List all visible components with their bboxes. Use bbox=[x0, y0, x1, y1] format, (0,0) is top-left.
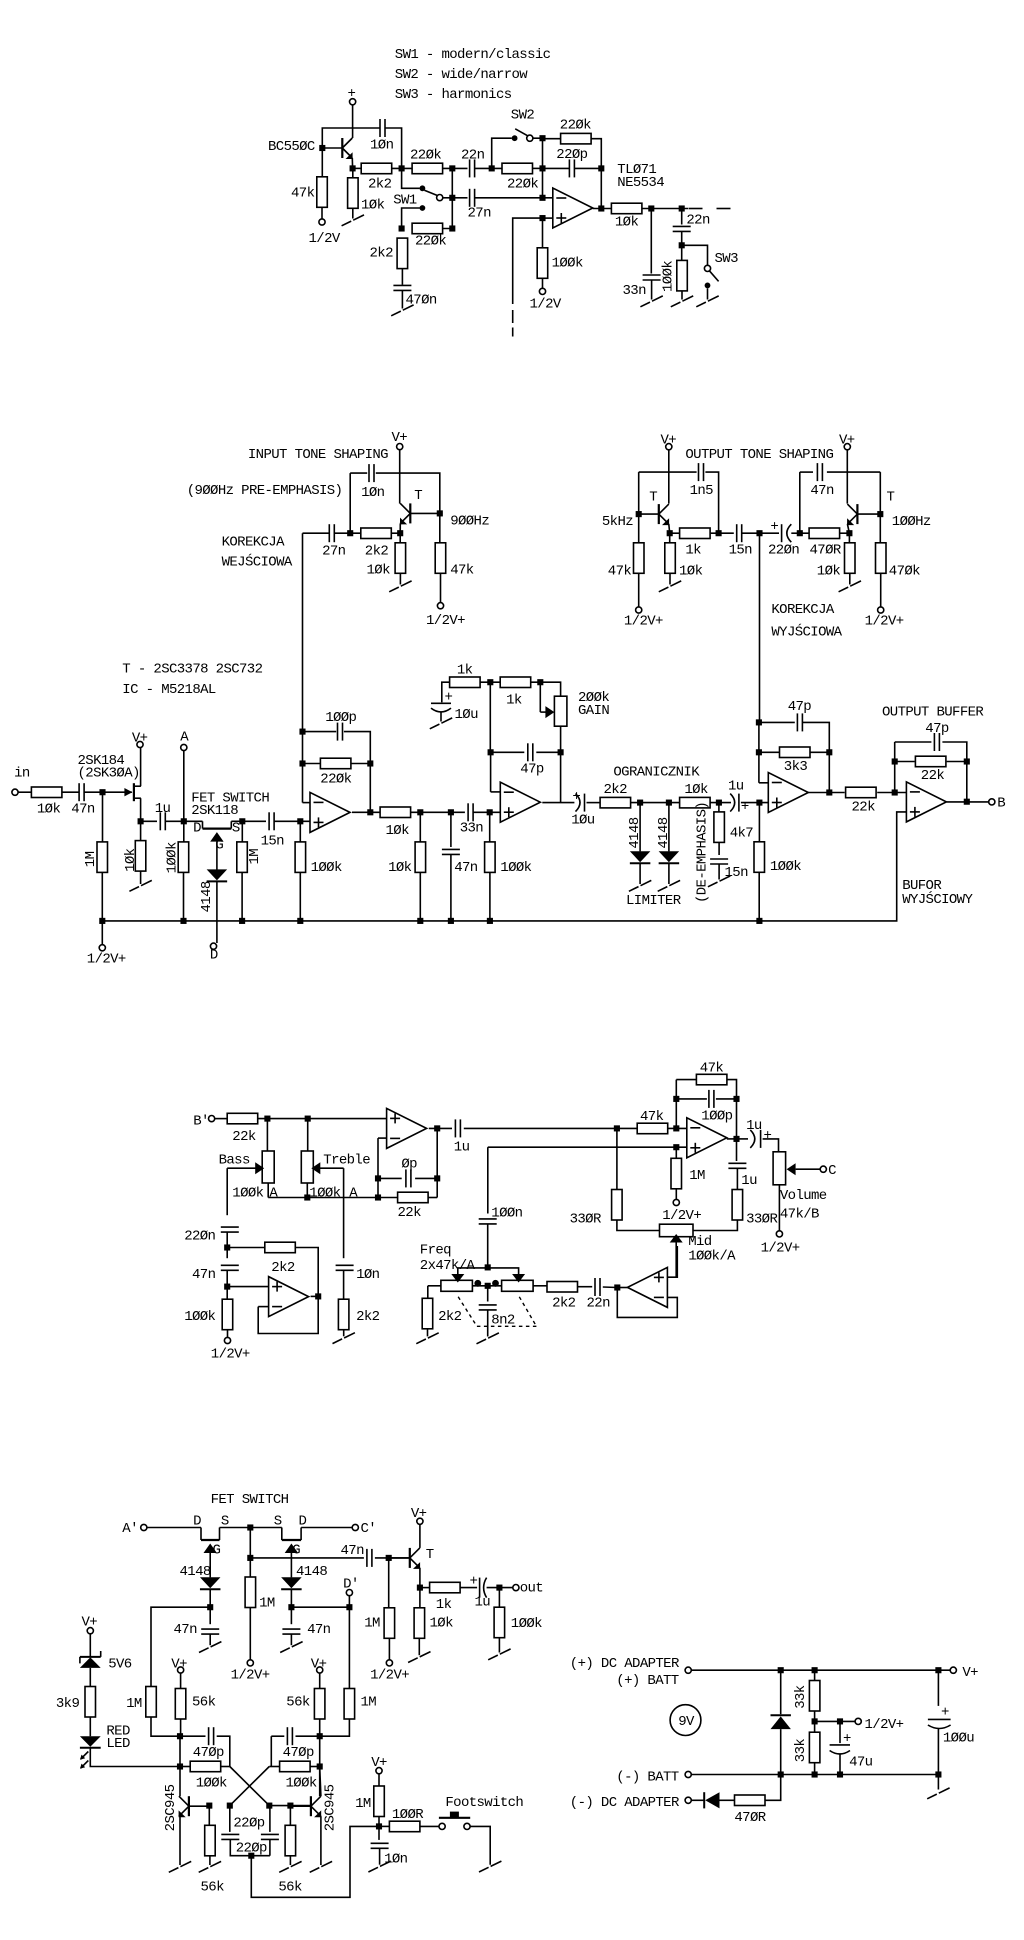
svg-text:1Øk: 1Øk bbox=[679, 564, 703, 580]
capacitor 22n C37 bbox=[595, 1278, 600, 1296]
svg-text:2k2: 2k2 bbox=[438, 1309, 462, 1325]
resistor 220k R7 bbox=[412, 223, 443, 234]
wire bbox=[942, 742, 966, 762]
wire bbox=[937, 1670, 939, 1706]
wire bbox=[216, 882, 218, 943]
wire bbox=[617, 1127, 637, 1129]
node bbox=[288, 1604, 294, 1610]
svg-text:1ØØk: 1ØØk bbox=[500, 860, 531, 876]
node bbox=[181, 818, 187, 824]
wire bbox=[209, 1856, 211, 1865]
wire bbox=[419, 1588, 421, 1608]
svg-text:56k: 56k bbox=[201, 1880, 225, 1896]
capacitor 8n2 C36 bbox=[479, 1305, 497, 1310]
wire bbox=[727, 1080, 737, 1139]
node bbox=[636, 511, 642, 517]
terminal 1/2V+ bbox=[386, 1660, 392, 1666]
node bbox=[826, 789, 832, 795]
svg-text:4148: 4148 bbox=[199, 881, 215, 912]
wire bbox=[295, 1248, 318, 1297]
svg-text:T: T bbox=[426, 1547, 434, 1563]
wire bbox=[209, 1590, 211, 1608]
node bbox=[756, 719, 762, 725]
capacitor 0p C30 bbox=[406, 1169, 411, 1187]
wire bbox=[450, 854, 452, 921]
capacitor 27n C9 bbox=[329, 524, 334, 542]
op-amp U2b M5218AL bbox=[500, 782, 540, 822]
svg-text:56k: 56k bbox=[278, 1880, 302, 1896]
node bbox=[376, 1823, 382, 1829]
resistor 56k R58 bbox=[175, 1689, 186, 1720]
potentiometer Volume 47k/B bbox=[773, 1152, 786, 1185]
ground bbox=[659, 587, 669, 592]
resistor 100k R70 bbox=[494, 1607, 505, 1638]
wire bbox=[487, 1224, 489, 1267]
capacitor 22n C2 bbox=[470, 159, 475, 177]
svg-text:15n: 15n bbox=[261, 834, 285, 850]
ground bbox=[839, 587, 849, 592]
wire bbox=[827, 471, 880, 473]
wire bbox=[352, 811, 380, 813]
svg-text:1/2V+: 1/2V+ bbox=[211, 1347, 250, 1363]
capacitor 15n C16 bbox=[269, 812, 274, 830]
power V+ terminal bbox=[376, 1768, 382, 1774]
node bbox=[812, 1771, 818, 1777]
node bbox=[177, 1763, 183, 1769]
node bbox=[797, 530, 803, 536]
resistor 1k R54 bbox=[430, 1582, 461, 1593]
svg-text:47ØR: 47ØR bbox=[734, 1810, 766, 1826]
resistor 10k R28 bbox=[380, 807, 411, 818]
wire bbox=[711, 532, 734, 534]
wire bbox=[141, 820, 157, 822]
svg-text:G: G bbox=[292, 1543, 300, 1559]
wire bbox=[846, 450, 848, 504]
node bbox=[487, 918, 493, 924]
wire bbox=[411, 811, 465, 813]
svg-text:T: T bbox=[414, 488, 422, 504]
svg-text:47Øk: 47Øk bbox=[889, 564, 920, 580]
node bbox=[247, 1555, 253, 1561]
wire bbox=[183, 751, 185, 822]
node bbox=[319, 145, 325, 151]
wire bbox=[543, 138, 561, 140]
svg-text:(+) DC ADAPTER: (+) DC ADAPTER bbox=[570, 1656, 680, 1672]
svg-text:33n: 33n bbox=[460, 821, 484, 837]
svg-text:Footswitch: Footswitch bbox=[445, 1795, 523, 1811]
capacitor 10u C21 bbox=[431, 702, 451, 714]
wire bbox=[401, 269, 403, 285]
svg-text:47k: 47k bbox=[700, 1060, 724, 1076]
capacitor 33n C19 bbox=[468, 803, 473, 821]
svg-text:+: + bbox=[941, 1705, 949, 1721]
wire bbox=[718, 864, 720, 880]
wire bbox=[736, 1168, 738, 1189]
wire bbox=[560, 726, 562, 802]
resistor 2k2 R42 bbox=[265, 1242, 296, 1253]
svg-text:1u: 1u bbox=[741, 1173, 757, 1189]
terminal B bbox=[989, 799, 995, 805]
wire bbox=[321, 207, 323, 219]
wire bbox=[691, 1774, 938, 1776]
svg-text:1/2V+: 1/2V+ bbox=[865, 1717, 904, 1733]
svg-text:2k2: 2k2 bbox=[271, 1260, 295, 1276]
capacitor 47n C40 bbox=[367, 1549, 372, 1567]
node bbox=[778, 1667, 784, 1673]
ground bbox=[640, 302, 650, 307]
resistor 100k R62 bbox=[280, 1761, 311, 1772]
wire bbox=[296, 1735, 320, 1737]
wire bbox=[802, 722, 829, 752]
terminal in bbox=[12, 789, 18, 795]
resistor 3k3 R37 bbox=[780, 747, 811, 758]
resistor 1M R53 bbox=[384, 1608, 395, 1639]
wire bbox=[458, 1268, 488, 1274]
svg-text:OGRANICZNIK: OGRANICZNIK bbox=[613, 764, 700, 780]
wire bbox=[668, 1127, 687, 1129]
wire bbox=[741, 802, 768, 804]
wire bbox=[301, 1527, 352, 1529]
wire bbox=[399, 533, 401, 543]
wire bbox=[183, 821, 185, 842]
capacitor 470n C3 bbox=[393, 285, 411, 290]
wire bbox=[879, 514, 881, 543]
wire bbox=[377, 1138, 379, 1197]
svg-text:1ØØk: 1ØØk bbox=[184, 1309, 215, 1325]
svg-text:8n2: 8n2 bbox=[491, 1313, 515, 1329]
terminal V+ bbox=[950, 1667, 956, 1673]
diode D3 4148 bbox=[659, 851, 680, 862]
node bbox=[539, 165, 545, 171]
ground bbox=[430, 724, 440, 729]
wire bbox=[848, 533, 850, 543]
node bbox=[935, 1771, 941, 1777]
wire bbox=[208, 1806, 210, 1826]
wire bbox=[839, 1755, 841, 1775]
wire bbox=[670, 532, 679, 534]
wire bbox=[420, 1587, 430, 1589]
node bbox=[206, 1803, 212, 1809]
svg-text:4148: 4148 bbox=[656, 817, 672, 848]
terminal 1/2V+ bbox=[776, 1231, 782, 1237]
wire bbox=[351, 158, 353, 168]
wire bbox=[895, 741, 932, 743]
resistor 100k R9 bbox=[537, 248, 548, 278]
node bbox=[399, 225, 405, 231]
node bbox=[812, 1667, 818, 1673]
svg-text:47n: 47n bbox=[307, 1622, 331, 1638]
svg-text:V+: V+ bbox=[171, 1656, 187, 1672]
wire bbox=[727, 1138, 737, 1140]
svg-text:47n: 47n bbox=[71, 802, 95, 818]
wire bbox=[460, 1587, 477, 1589]
node bbox=[733, 1096, 739, 1102]
svg-text:4148: 4148 bbox=[296, 1564, 327, 1580]
wire bbox=[180, 1673, 182, 1689]
svg-text:47k: 47k bbox=[291, 186, 315, 202]
resistor 10k R14 bbox=[395, 543, 406, 574]
diode D1 4148 bbox=[207, 869, 228, 880]
wire bbox=[464, 1127, 617, 1129]
node bbox=[297, 818, 303, 824]
node bbox=[375, 1194, 381, 1200]
wire bbox=[675, 1189, 677, 1200]
wire bbox=[227, 1247, 265, 1249]
wire bbox=[140, 798, 142, 821]
wire bbox=[814, 1711, 816, 1732]
svg-text:WEJŚCIOWA: WEJŚCIOWA bbox=[222, 553, 293, 571]
wire bbox=[344, 732, 370, 764]
wire bbox=[440, 573, 442, 602]
wire bbox=[814, 1763, 816, 1775]
ground bbox=[479, 1867, 489, 1872]
battery 9V bbox=[670, 1705, 701, 1736]
ground bbox=[629, 887, 639, 892]
svg-text:(-) BATT: (-) BATT bbox=[616, 1769, 678, 1785]
wire bbox=[62, 791, 79, 793]
svg-text:1Øk: 1Øk bbox=[684, 782, 708, 798]
diode D6 bbox=[771, 1716, 791, 1729]
capacitor 470p C45 bbox=[287, 1727, 292, 1745]
svg-text:2x47k/A: 2x47k/A bbox=[420, 1258, 476, 1274]
op-amp U5b M5218AL bbox=[627, 1267, 667, 1307]
wire bbox=[242, 820, 266, 822]
wire bbox=[765, 1775, 781, 1801]
svg-text:47p: 47p bbox=[925, 721, 949, 737]
svg-text:1ØØp: 1ØØp bbox=[325, 710, 356, 726]
svg-text:out: out bbox=[520, 1581, 543, 1597]
svg-text:2k2: 2k2 bbox=[370, 246, 394, 262]
wire bbox=[489, 872, 491, 921]
svg-text:SW1 - modern/classic: SW1 - modern/classic bbox=[395, 47, 551, 63]
node bbox=[180, 918, 186, 924]
svg-text:1M: 1M bbox=[247, 849, 263, 865]
resistor 100k R11 bbox=[677, 260, 688, 291]
wire cross-couple bbox=[230, 1767, 269, 1806]
wire bbox=[487, 1587, 513, 1589]
svg-text:FET SWITCH: FET SWITCH bbox=[211, 1492, 289, 1508]
wire bbox=[533, 167, 543, 169]
svg-text:C: C bbox=[828, 1163, 836, 1179]
gang dot bbox=[492, 1280, 499, 1287]
op-amp U4a M5218AL bbox=[269, 1277, 309, 1317]
capacitor 47u bbox=[831, 1743, 849, 1756]
wire bbox=[428, 1197, 437, 1199]
wire bbox=[587, 802, 601, 804]
wire bbox=[758, 803, 760, 842]
wire bbox=[847, 524, 849, 533]
resistor 100k R36 bbox=[754, 842, 765, 873]
wire bbox=[209, 1634, 211, 1645]
node bbox=[315, 1293, 321, 1299]
power V+ terminal bbox=[178, 1667, 184, 1673]
resistor 1k R31 bbox=[450, 677, 481, 688]
capacitor 47p C25 bbox=[797, 713, 802, 731]
node bbox=[347, 530, 353, 536]
capacitor 22n C7 bbox=[673, 226, 691, 231]
wire bbox=[385, 128, 402, 168]
wire bbox=[147, 1527, 201, 1529]
capacitor 10u C22 bbox=[578, 794, 586, 812]
resistor 1M R65 bbox=[374, 1786, 385, 1817]
svg-text:(-) DC ADAPTER: (-) DC ADAPTER bbox=[570, 1795, 680, 1811]
wire bbox=[291, 1606, 349, 1608]
wire bbox=[311, 1295, 319, 1297]
wire bbox=[489, 682, 491, 752]
terminal A' bbox=[141, 1524, 147, 1530]
transistor T3 100Hz bbox=[856, 504, 858, 524]
node bbox=[673, 1125, 679, 1131]
node bbox=[437, 510, 443, 516]
diode RED LED bbox=[80, 1736, 101, 1747]
svg-text:1ØØk: 1ØØk bbox=[311, 860, 342, 876]
capacitor 1u C23 bbox=[732, 794, 740, 812]
terminal 1/2V+ bbox=[99, 945, 105, 951]
wire bbox=[780, 1729, 782, 1774]
svg-text:15n: 15n bbox=[725, 865, 749, 881]
wire bbox=[343, 1168, 345, 1258]
resistor 22k R40 bbox=[227, 1113, 258, 1124]
capacitor 100n C33 bbox=[479, 1219, 497, 1224]
transistor Q6 T bbox=[409, 1548, 411, 1568]
svg-text:33ØR: 33ØR bbox=[746, 1211, 778, 1227]
svg-text:D: D bbox=[210, 947, 218, 963]
wire bbox=[290, 1590, 292, 1608]
wire bbox=[763, 1139, 779, 1152]
wire bbox=[879, 472, 881, 514]
wire bbox=[419, 1568, 421, 1588]
switch SW1 bbox=[420, 185, 426, 191]
svg-text:1Øn: 1Øn bbox=[370, 138, 394, 154]
node bbox=[648, 205, 654, 211]
resistor 10k R55 bbox=[414, 1608, 425, 1639]
wire bbox=[617, 1220, 659, 1231]
potentiometer 200k GAIN bbox=[554, 696, 567, 726]
svg-text:1Øk: 1Øk bbox=[361, 198, 385, 214]
terminal D bbox=[210, 943, 216, 949]
ground bbox=[416, 1339, 426, 1344]
svg-text:5kHz: 5kHz bbox=[602, 514, 633, 530]
node bbox=[892, 789, 898, 795]
op-amp U2a M5218AL bbox=[310, 792, 350, 832]
wire bbox=[353, 167, 362, 169]
node bbox=[837, 1771, 843, 1777]
wire bbox=[593, 208, 612, 210]
wire bbox=[230, 1839, 270, 1855]
svg-text:1/2V+: 1/2V+ bbox=[426, 613, 465, 629]
ground bbox=[279, 1868, 289, 1873]
wire bbox=[759, 721, 795, 723]
transistor Q4 FET bbox=[201, 1539, 220, 1541]
wire bbox=[220, 1766, 229, 1768]
svg-text:1M: 1M bbox=[355, 1796, 371, 1812]
switch SW2 bbox=[512, 135, 518, 141]
node bbox=[138, 818, 144, 824]
svg-text:1ØØk: 1ØØk bbox=[661, 261, 677, 292]
wire bbox=[758, 722, 760, 782]
wire bbox=[810, 751, 829, 753]
node bbox=[266, 1803, 272, 1809]
svg-text:S: S bbox=[274, 1514, 282, 1530]
svg-text:22k: 22k bbox=[852, 800, 876, 816]
wire bbox=[705, 472, 718, 533]
wire bbox=[681, 209, 683, 225]
terminal (+) bbox=[685, 1667, 691, 1673]
wire bbox=[498, 1588, 500, 1608]
svg-text:+: + bbox=[470, 1574, 478, 1590]
node bbox=[434, 1175, 440, 1181]
node bbox=[449, 225, 455, 231]
resistor 4k7 R35 bbox=[714, 812, 725, 843]
capacitor 1u C31 bbox=[455, 1119, 460, 1137]
svg-text:1/2V+: 1/2V+ bbox=[624, 613, 663, 629]
svg-text:27n: 27n bbox=[468, 206, 492, 222]
svg-text:1/2V+: 1/2V+ bbox=[231, 1668, 270, 1684]
svg-text:B: B bbox=[997, 795, 1005, 811]
wire bbox=[639, 471, 697, 473]
svg-text:1Øk: 1Øk bbox=[817, 564, 841, 580]
resistor 1M R64 bbox=[344, 1689, 355, 1720]
wire bbox=[90, 1748, 180, 1767]
svg-text:1M: 1M bbox=[83, 851, 99, 867]
op-amp U5a M5218AL bbox=[687, 1118, 727, 1158]
svg-text:1ØØR: 1ØØR bbox=[392, 1807, 424, 1823]
wire bbox=[215, 1118, 228, 1120]
wire bbox=[350, 472, 367, 474]
svg-text:1k: 1k bbox=[436, 1597, 452, 1613]
svg-text:KOREKCJA: KOREKCJA bbox=[771, 602, 834, 618]
svg-text:A: A bbox=[180, 730, 189, 746]
resistor 220k R8 bbox=[561, 133, 592, 144]
wire bbox=[89, 1668, 91, 1687]
node bbox=[448, 809, 454, 815]
resistor 47k R12 bbox=[435, 543, 446, 574]
wire bbox=[151, 1717, 180, 1736]
wire bbox=[419, 872, 421, 921]
wire bbox=[420, 1825, 439, 1827]
node bbox=[397, 530, 403, 536]
power V+ terminal bbox=[317, 1667, 323, 1673]
wire bbox=[303, 802, 311, 804]
wire bbox=[880, 573, 882, 607]
ground bbox=[658, 887, 668, 892]
ground bbox=[696, 302, 706, 307]
wire bbox=[442, 682, 450, 702]
wire bbox=[392, 167, 413, 169]
wire bbox=[320, 1816, 322, 1865]
transistor T2 5kHz bbox=[658, 504, 660, 524]
wire bbox=[828, 752, 830, 792]
wire bbox=[543, 167, 570, 169]
wire bbox=[542, 802, 574, 804]
resistor 1M R25 bbox=[237, 842, 248, 873]
wire bbox=[402, 168, 420, 188]
svg-text:G: G bbox=[213, 1543, 221, 1559]
wire bbox=[310, 1766, 320, 1768]
wire bbox=[251, 1826, 376, 1897]
svg-text:BC55ØC: BC55ØC bbox=[268, 139, 315, 155]
node bbox=[496, 1585, 502, 1591]
terminal 1/2V+ bbox=[673, 1199, 679, 1205]
wire bbox=[488, 1268, 519, 1274]
wire bbox=[533, 1285, 547, 1287]
wire bbox=[617, 1288, 677, 1318]
wire bbox=[388, 1558, 390, 1608]
resistor 2k2 R2 bbox=[361, 163, 392, 174]
svg-text:A: A bbox=[349, 1186, 358, 1202]
svg-text:Treble: Treble bbox=[323, 1153, 370, 1169]
wire bbox=[289, 1806, 291, 1826]
